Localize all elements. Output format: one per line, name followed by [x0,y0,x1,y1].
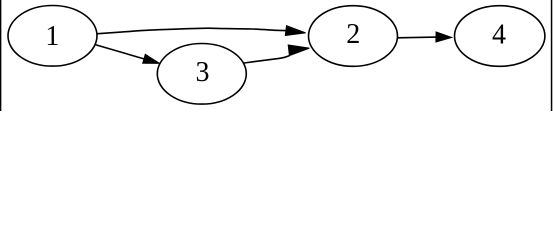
wire edge 1->3 [94,44,146,59]
arrowhead 3->2 [288,45,309,56]
wire edge 2->4 [397,36,437,39]
right border line [551,0,553,111]
wire edge 3->2 [244,56,290,64]
svg-text:4: 4 [492,20,506,51]
wire edge 1->2 [96,28,287,34]
left border line [0,0,1,111]
node 1 ellipse [8,6,97,67]
svg-text:2: 2 [346,19,360,50]
arrowhead 1->3 [143,54,160,63]
node 3 ellipse [157,44,246,105]
svg-text:1: 1 [45,21,59,52]
arrowhead 1->2 [285,26,305,36]
arrowhead 2->4 [436,32,452,42]
node 2 ellipse [309,6,398,67]
node 4 ellipse [455,6,545,67]
svg-text:3: 3 [196,57,210,88]
